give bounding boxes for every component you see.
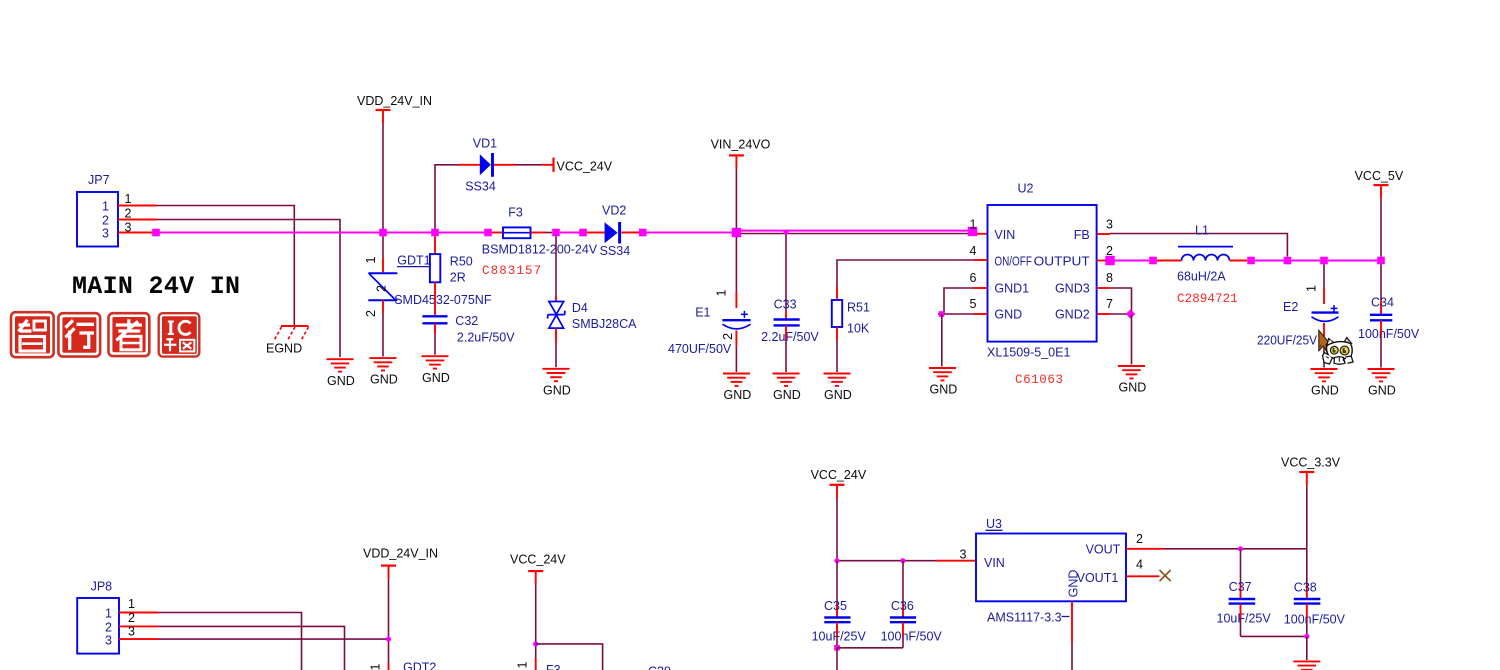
svg-text:2: 2 [364,310,378,317]
svg-text:3: 3 [128,625,135,639]
TVS D4 bottom pin [555,328,557,343]
ground (C37/C38, clipped) [1293,661,1320,670]
svg-text:8: 8 [1106,271,1113,285]
svg-text:VD2: VD2 [602,204,626,218]
svg-text:OUTPUT: OUTPUT [1034,254,1090,268]
svg-text:GDT2: GDT2 [403,661,436,670]
wire VCC_3.3V down to rail [1306,485,1308,549]
regulator U3 body [976,534,1126,602]
wire main net double run to U2 (dark) [741,233,978,235]
ground symbol EGND (chassis) [274,326,309,341]
svg-text:E2: E2 [1283,300,1298,314]
wire E2 to GND [1323,339,1325,368]
wire VCC_5V down to output net [1380,198,1382,256]
C36 bottom pin [902,622,904,636]
power port VCC_24V (sideways bar) [554,158,613,174]
E1 pin 2 [735,331,737,347]
wire C38 to bottom rail [1306,617,1308,636]
svg-text:VDD_24V_IN: VDD_24V_IN [363,547,438,561]
wire main net (magenta) VD2 to E1 node [647,232,733,234]
svg-text:1: 1 [125,192,132,206]
svg-text:AMS1117-3.3: AMS1117-3.3 [987,610,1062,624]
svg-text:2: 2 [125,207,132,221]
U2 pin7 stub [1097,313,1110,315]
svg-text:VIN: VIN [984,556,1005,570]
wire to GND (bottom right) [1306,636,1308,660]
svg-text:C2894721: C2894721 [1177,292,1238,306]
wire FB net (U2 pin3 to output node) [1110,234,1287,257]
svg-text:1: 1 [516,661,530,668]
TVS D4 top pin [555,297,557,302]
svg-text:SMD4532-075NF: SMD4532-075NF [394,293,492,307]
diode VD1 [480,153,493,177]
svg-text:VCC_24V: VCC_24V [557,159,613,173]
ground (under JP7 pin2 wire) [327,359,355,388]
power port VDD_24V_IN (top) [357,94,432,123]
wire JP7 pin1 to EGND [157,206,294,327]
svg-text:1: 1 [369,663,383,670]
junction at FB tap [1284,257,1292,265]
fuse F3 left pin [492,232,503,234]
U3 value AMS1117-3.3 [987,610,1070,624]
svg-text:C32: C32 [455,314,478,328]
svg-text:68uH/2A: 68uH/2A [1177,269,1226,283]
svg-text:100nF/50V: 100nF/50V [1358,327,1420,341]
svg-text:3: 3 [102,227,109,241]
wire C36 branch down [902,561,904,605]
wire D4 branch down [555,236,557,296]
short wire before D4 junction [546,232,553,234]
wire VCC_24V down to VIN rail [836,498,838,561]
power port VCC_24V (bottom-left) [510,552,566,584]
svg-text:1: 1 [128,597,135,611]
svg-text:VD1: VD1 [473,137,497,151]
diode VD2 anode pin [587,232,605,234]
ground (GDT1) [370,358,398,387]
wire GDT1 to GND [382,313,384,357]
capacitor C35 [824,618,850,623]
junction dot at C37 tap [1238,546,1243,551]
svg-text:5: 5 [970,297,977,311]
junction at U2 left gnd [939,311,945,317]
wire JP8 pin1 down (clipped) [159,613,302,670]
diode VD2 cathode pin [621,232,639,234]
wire output net magenta (L1 to FB node) [1255,260,1284,262]
svg-text:XL1509-5_0E1: XL1509-5_0E1 [987,345,1070,359]
E1 pin 1 [735,292,737,308]
junction at VDD riser [379,229,387,237]
svg-text:C34: C34 [1371,295,1394,309]
wire C32 to GND [434,334,436,355]
C34 bottom pin [1380,320,1382,334]
U3 GND pin stub [1071,601,1073,642]
gas discharge tube GDT1 [368,273,397,300]
L1 right pin [1230,260,1248,262]
C33 bottom pin [785,325,787,339]
JP8 pin 3 (stub + numbers) [105,625,159,648]
svg-text:C883157: C883157 [482,264,542,278]
C35 top pin [836,605,838,618]
R51 bottom pin [836,327,838,340]
svg-text:VCC_5V: VCC_5V [1355,169,1404,183]
svg-text:1: 1 [105,607,112,621]
capacitor C38 [1294,599,1321,604]
svg-text:VIN_24VO: VIN_24VO [711,138,771,152]
fuse F3 bottom pin 1 (clipped) [535,658,537,670]
wire U2 pin8 to right gnd riser [1110,288,1132,314]
wire VD1 to VCC_24V [516,164,543,166]
svg-text:SS34: SS34 [600,244,631,258]
svg-text:C61063: C61063 [1015,373,1064,387]
junction dot at C36 tap [900,558,905,563]
diode VD1 anode pin [459,164,480,166]
wire VIN_24VO down to main net [735,169,737,229]
ground (U2 right) [1118,366,1146,395]
svg-text:470UF/50V: 470UF/50V [668,342,732,356]
svg-text:1: 1 [715,289,729,296]
svg-text:U2: U2 [1018,182,1034,196]
capacitor C34 [1370,315,1392,321]
svg-text:SMBJ28CA: SMBJ28CA [572,317,637,331]
svg-text:VOUT: VOUT [1086,543,1121,557]
junction at R50 node [431,229,439,237]
ground (D4) [543,369,571,398]
svg-text:2: 2 [721,333,735,340]
GDT1 pin 1 [382,258,384,272]
U2 pin2 stub [1097,260,1107,262]
U2 pin1 stub [977,233,987,235]
svg-text:10uF/25V: 10uF/25V [1217,612,1272,626]
svg-text:GND1: GND1 [994,281,1029,295]
svg-text:E1: E1 [695,306,710,320]
electrolytic capacitor E2 [1312,305,1339,321]
svg-text:VDD_24V_IN: VDD_24V_IN [357,94,432,108]
capacitor C36 [890,618,916,623]
resistor R50 top pin [434,236,436,254]
junction diamond at U2 right gnd [1126,309,1136,319]
wire VDD node down to GDT1 [382,236,384,258]
mouse cursor with cat [1319,330,1353,364]
wire C37 branch down [1240,549,1242,585]
svg-text:GND: GND [724,388,752,402]
ground (U2 left) [929,368,957,397]
power port VIN_24VO [711,138,771,169]
svg-text:100nF/50V: 100nF/50V [881,630,943,644]
wire C33 branch down [785,235,787,312]
svg-text:F3: F3 [546,663,561,670]
power port VCC_3.3V [1281,456,1341,486]
wire U2 pin5 to left gnd riser [938,313,974,315]
wire VIN rail to U3 [837,560,936,562]
svg-text:10uF/25V: 10uF/25V [812,630,867,644]
diode VD2 [605,222,620,244]
wire VD1 branch (up from R50 node, to diode) [435,165,459,229]
svg-text:GDT1: GDT1 [397,253,430,267]
wire bottom rail C37-C38 [1241,635,1307,637]
svg-text:GND: GND [1368,384,1396,398]
junction right of L1 [1247,257,1255,265]
wire branch to C39 (clipped) [536,644,603,670]
wire C34 to GND [1380,334,1382,368]
junction at C34 / VCC_5V [1377,257,1385,265]
junction square at U2 pin2 [1105,256,1114,265]
electrolytic capacitor E1 [722,311,750,329]
wire E1 to GND [735,346,737,372]
U2 pin8 stub [1097,287,1110,289]
junction dot at JP8 pin3 tap [386,637,391,642]
svg-text:C38: C38 [1294,581,1317,595]
svg-text:1: 1 [1305,285,1319,292]
svg-text:C36: C36 [891,599,914,613]
junction dot at C39 branch [533,641,538,646]
U2 pin5 stub [974,313,988,315]
resistor R51 [832,300,842,327]
svg-text:2: 2 [102,214,109,228]
wire C38 branch down [1306,549,1308,585]
svg-text:GND: GND [994,307,1022,321]
svg-text:7: 7 [1106,297,1113,311]
svg-text:3: 3 [105,634,112,648]
svg-text:C33: C33 [774,298,797,312]
E2 pin 1 [1323,288,1325,304]
JP8 pin 2 (stub + numbers) [105,611,159,634]
svg-text:MAIN 24V IN: MAIN 24V IN [72,272,240,301]
GDT1 refdes (underlined) [397,253,431,267]
big junction at VIN_24VO / E1 node [732,228,741,237]
junction right of VD2 [639,229,647,237]
wire R50 to C32 (pins) [434,282,436,316]
svg-text:BSMD1812-200-24V: BSMD1812-200-24V [482,243,598,257]
C37 top pin [1240,585,1242,599]
power port VCC_24V (U3 input) [811,468,867,498]
svg-text:GND: GND [773,388,801,402]
resistor R50 [430,254,440,282]
ground (E2) [1311,369,1339,398]
svg-text:3: 3 [125,221,132,235]
svg-text:U3: U3 [986,517,1002,531]
junction square at U2 pin1 [968,227,977,236]
svg-text:D4: D4 [572,301,588,315]
wire C37 to bottom rail [1240,617,1242,636]
junction left of fuse F3 [484,229,492,237]
wire JP8 pin2 down (clipped) [159,626,345,670]
svg-text:F3: F3 [508,205,523,219]
svg-text:2.2uF/50V: 2.2uF/50V [457,331,515,345]
svg-text:VCC_24V: VCC_24V [510,552,566,566]
junction dot at C38 bottom [1304,634,1309,639]
wire VDD riser down to GDT2 [388,579,390,663]
wire VCC_24V riser down to F3 [535,584,537,658]
JP7 pin 2 (stub + numbers) [102,207,157,228]
logo stamp 1 (zhi) [11,312,54,357]
L1 left pin [1157,260,1182,262]
connector JP7 body [77,192,118,247]
wire C36 to bottom rail [902,636,904,648]
svg-text:GND: GND [327,374,355,388]
svg-text:2: 2 [105,620,112,634]
power port VDD_24V_IN (bottom) [363,547,438,579]
junction dot at C35 tap [834,558,839,563]
wire E2 branch down [1323,264,1325,288]
diode VD1 cathode pin [494,164,516,166]
U3 refdes (underlined) [986,517,1003,531]
logo stamp 3 (zhe) [109,313,150,356]
regulator U2 body [988,205,1097,342]
svg-text:JP7: JP7 [88,173,110,187]
U2 pin6 stub [974,287,988,289]
svg-text:GND2: GND2 [1055,307,1090,321]
svg-text:1: 1 [364,256,378,263]
junction left of VD2 [579,229,587,237]
capacitor C32 [422,316,447,323]
wire C34 branch down [1380,264,1382,301]
C37 bottom pin [1240,604,1242,617]
fuse F3 [503,227,531,238]
svg-text:4: 4 [970,244,977,258]
connector JP8 body [77,598,119,654]
logo stamp 2 (xing) [58,313,100,356]
svg-text:EGND: EGND [266,342,302,356]
wire main net (magenta) F3 junction to VD2 [560,232,583,234]
svg-text:2: 2 [1106,244,1113,258]
svg-text:VCC_3.3V: VCC_3.3V [1281,456,1341,470]
ground (R51) [824,374,852,403]
R51 top pin [836,287,838,300]
VCC_24V pin tail [542,164,553,166]
wire R51 to GND [836,340,838,372]
no-connect X at U3 pin4 [1160,570,1171,581]
ground (C34) [1368,369,1396,398]
C38 top pin [1306,585,1308,599]
ground (C32) [422,356,450,385]
ground (C33) [773,374,801,403]
wire VOUT to VCC_3.3V rail [1164,548,1307,550]
svg-text:220UF/25V: 220UF/25V [1257,334,1318,348]
ground (E1) [723,374,751,403]
wire C35 to bottom rail [836,636,838,648]
wire JP8 pin3 to VDD riser [159,638,389,640]
wire VDD_24V_IN down to main net [382,123,384,229]
svg-text:VCC_24V: VCC_24V [811,468,867,482]
C32 bottom pin [434,323,436,334]
svg-text:R51: R51 [847,300,870,314]
junction at D4 branch [552,229,560,237]
C36 top pin [902,605,904,618]
wire left gnd riser down [941,314,943,367]
inductor L1 [1178,247,1233,261]
JP8 pin 1 (stub + numbers) [105,597,159,621]
svg-text:GND: GND [1067,570,1081,598]
wire C33 to GND [785,339,787,372]
svg-text:4: 4 [1136,558,1143,572]
svg-text:FB: FB [1074,228,1090,242]
wire bottom rail down (clipped) [836,648,838,670]
U3 pin4 stub [1126,575,1160,577]
svg-text:GND: GND [1119,381,1147,395]
GDT2 pin 1 (clipped) [388,663,390,670]
U2 pin4 stub [974,259,988,261]
power port VCC_5V [1355,169,1404,198]
wire D4 to GND [555,343,557,367]
wire U2 ON/OFF to R51 [837,260,974,287]
svg-text:GND: GND [1311,384,1339,398]
svg-text:SS34: SS34 [465,180,496,194]
C34 top pin [1380,301,1382,315]
svg-text:10K: 10K [847,322,870,336]
junction left of L1 [1149,257,1157,265]
svg-text:R50: R50 [450,254,473,268]
wire main 24V net segment (magenta highlighted) [156,232,487,234]
svg-text:L1: L1 [1195,224,1209,238]
svg-text:VOUT1: VOUT1 [1077,571,1119,585]
junction dot at C33 tap [783,230,788,235]
svg-text:2.2uF/50V: 2.2uF/50V [761,330,819,344]
svg-text:100nF/50V: 100nF/50V [1284,613,1346,627]
svg-text:GND3: GND3 [1055,281,1090,295]
svg-text:1: 1 [102,200,109,214]
TVS diode D4 (bidirectional) [548,302,565,329]
E2 pin 2 [1323,323,1325,339]
svg-text:GND: GND [422,371,450,385]
wire C35 branch down [836,561,838,605]
svg-text:GND: GND [824,388,852,402]
C35 bottom pin [836,622,838,636]
C38 bottom pin [1306,604,1308,617]
wire U2 pin7 to right gnd riser [1110,313,1132,315]
svg-text:6: 6 [970,271,977,285]
svg-text:JP8: JP8 [91,579,113,593]
fuse F3 right pin [531,232,547,234]
wire output net magenta (FB node to E2) [1291,260,1320,262]
wire U3 GND down (clipped) [1071,643,1073,670]
svg-text:3: 3 [960,548,967,562]
wire output net magenta (pin2 to L1) [1115,260,1150,262]
svg-text:C35: C35 [824,599,847,613]
svg-text:2R: 2R [450,270,466,284]
U3 pin2 stub [1126,548,1164,550]
svg-text:VIN: VIN [994,228,1015,242]
wire JP7 pin2 to GND [157,220,340,358]
svg-text:1: 1 [970,217,977,231]
wire output net magenta (E2 to C34) [1328,260,1377,262]
GDT1 pin 2 [382,300,384,313]
svg-text:GND: GND [930,383,958,397]
svg-text:GND: GND [543,383,571,397]
JP7 pin 1 (stub + numbers) [102,192,157,214]
svg-text:C39: C39 [648,665,671,670]
wire bottom rail C35-C36 [837,647,903,649]
wire main net double run to U2 (magenta highlight) [741,230,968,232]
svg-text:GND: GND [370,373,398,387]
wire U2 pin6 to left gnd riser [944,288,974,314]
wire E1 branch down [735,237,737,292]
wire right gnd riser down [1131,314,1133,365]
U2 pin3 stub [1097,233,1110,235]
svg-text:C37: C37 [1229,580,1252,594]
U3 pin3 stub [936,560,976,562]
capacitor C37 [1229,599,1256,604]
C33 top pin [785,311,787,320]
svg-text:3: 3 [1106,217,1113,231]
junction at E2 tap [1320,257,1328,265]
svg-text:2: 2 [1136,532,1143,546]
capacitor C33 [774,320,800,326]
JP7 pin 3 (stub + numbers) [102,221,153,241]
svg-text:ON/OFF: ON/OFF [994,254,1032,268]
junction square at C35 bottom [834,645,840,651]
junction main net at JP7 pin3 [152,229,160,237]
svg-text:2: 2 [374,285,388,292]
